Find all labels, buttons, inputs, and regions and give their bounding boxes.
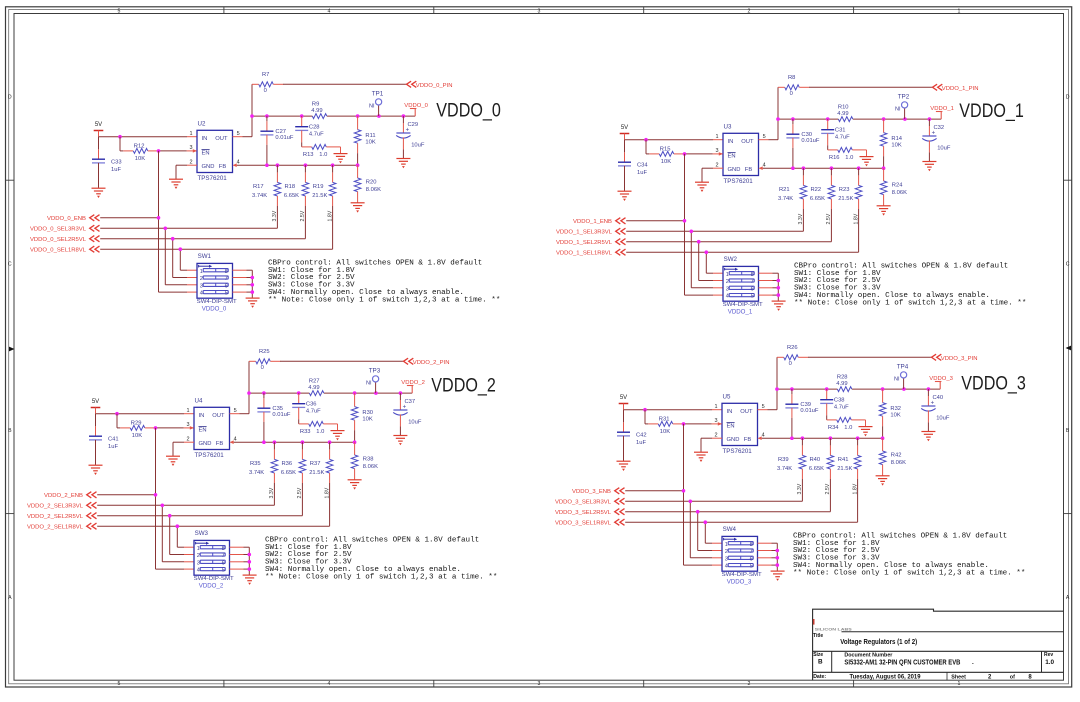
wire to VDDO_1_PIN flag	[809, 86, 933, 88]
svg-text:R41: R41	[838, 457, 849, 463]
resistor R34 1.0	[827, 417, 866, 431]
svg-text:10K: 10K	[365, 140, 375, 146]
svg-text:10K: 10K	[132, 433, 142, 439]
svg-text:GND: GND	[199, 441, 212, 447]
flag VDDO_3_ENB	[572, 488, 624, 496]
svg-text:8: 8	[225, 269, 228, 275]
svg-text:R36: R36	[282, 461, 293, 467]
svg-text:EN: EN	[728, 154, 736, 160]
flag VDDO_3_SEL3R3VL	[555, 498, 625, 506]
svg-text:R23: R23	[839, 187, 850, 193]
svg-text:EN: EN	[202, 151, 210, 157]
wire VDDO_3_SEL3R3VL	[625, 500, 802, 558]
resistor R19 21.5K	[312, 165, 336, 249]
svg-text:R20: R20	[366, 179, 377, 185]
svg-text:4: 4	[726, 294, 729, 300]
svg-text:5: 5	[118, 8, 121, 14]
svg-text:1: 1	[197, 546, 200, 552]
svg-text:C: C	[1066, 261, 1070, 267]
ground at U4 pin 2	[166, 456, 180, 466]
svg-text:Date:: Date:	[813, 674, 826, 680]
svg-text:1.0: 1.0	[844, 425, 852, 431]
svg-text:8.06K: 8.06K	[892, 190, 907, 196]
svg-text:10K: 10K	[891, 143, 901, 149]
svg-text:1: 1	[190, 131, 193, 137]
wire OUT pin 5 to rail	[233, 116, 253, 137]
svg-text:C41: C41	[108, 436, 119, 442]
ground at SW3	[243, 575, 257, 585]
title text	[813, 633, 917, 646]
svg-text:SW4-DIP-SMT: SW4-DIP-SMT	[194, 576, 235, 582]
test point TP3	[366, 368, 381, 393]
wire 5V input net to U5 pin 1	[624, 408, 723, 412]
svg-text:R38: R38	[363, 456, 374, 462]
resistor R36 6.65K	[281, 442, 306, 516]
power 5V (VDDO_2)	[91, 399, 101, 414]
switch SW1 SW4-DIP-SMT	[197, 253, 238, 313]
svg-text:VDDO_2: VDDO_2	[199, 582, 224, 589]
svg-text:4: 4	[200, 291, 203, 297]
svg-text:VDDO_3_ENB: VDDO_3_ENB	[572, 489, 611, 495]
svg-text:VDDO_0: VDDO_0	[202, 305, 227, 312]
svg-text:A: A	[8, 595, 12, 601]
svg-text:4: 4	[197, 568, 200, 574]
svg-text:5: 5	[118, 681, 121, 687]
wire VDDO_2_SEL3R3VL	[97, 504, 274, 562]
svg-text:TP1: TP1	[372, 91, 384, 98]
ground at U5 pin 2	[694, 452, 708, 462]
svg-text:4.99: 4.99	[836, 381, 847, 387]
svg-text:VDDO_3_PIN: VDDO_3_PIN	[941, 356, 978, 362]
resistor R18 6.65K	[284, 165, 309, 239]
svg-text:D: D	[8, 95, 12, 101]
svg-text:6: 6	[751, 286, 754, 292]
capacitor C42 1uF	[617, 410, 647, 461]
capacitor C41 1uF	[89, 414, 119, 465]
svg-text:R14: R14	[891, 136, 902, 142]
svg-text:IN: IN	[199, 413, 205, 419]
svg-text:Rev: Rev	[1044, 652, 1053, 658]
ground at SW4	[771, 571, 785, 581]
wire U2 GND pin 2	[176, 165, 197, 179]
wire VDDO_1_SEL2R5VL	[626, 240, 831, 281]
svg-text:Tuesday, August 06, 2019: Tuesday, August 06, 2019	[850, 673, 921, 680]
svg-text:3: 3	[538, 8, 541, 14]
test point TP1	[369, 91, 384, 116]
svg-text:1.0: 1.0	[319, 152, 327, 158]
svg-text:VDDO_0_PIN: VDDO_0_PIN	[416, 83, 453, 89]
flag VDDO_0_SEL2R5VL	[30, 236, 100, 244]
svg-text:3.3V: 3.3V	[269, 487, 275, 498]
ground at C37	[393, 436, 407, 446]
size / document number / rev row	[813, 652, 1054, 666]
svg-text:SW1: SW1	[198, 253, 212, 260]
wire to VDDO_0_PIN flag	[283, 83, 407, 85]
svg-text:6.65K: 6.65K	[810, 196, 825, 202]
svg-text:R18: R18	[285, 184, 296, 190]
svg-text:10K: 10K	[135, 156, 145, 162]
resistor R24 8.06K	[880, 168, 907, 205]
resistor R27 4.99	[308, 378, 324, 395]
resistor R21 3.74K	[778, 168, 807, 231]
capacitor C36 4.7uF	[292, 393, 321, 424]
svg-text:3: 3	[726, 286, 729, 292]
svg-text:TP3: TP3	[369, 368, 381, 375]
ground at U3 pin 2	[695, 182, 709, 192]
svg-text:GND: GND	[728, 167, 741, 173]
svg-text:1.8V: 1.8V	[853, 213, 859, 224]
svg-text:1.0: 1.0	[845, 155, 853, 161]
svg-text:3: 3	[190, 145, 193, 151]
svg-text:+: +	[403, 405, 407, 411]
power 5V (VDDO_0)	[94, 122, 104, 137]
svg-text:21.5K: 21.5K	[309, 470, 324, 476]
svg-text:R34: R34	[828, 425, 839, 431]
wire VDDO_3 output rail	[775, 387, 940, 391]
svg-text:3.74K: 3.74K	[249, 470, 264, 476]
svg-text:3: 3	[187, 422, 190, 428]
wire to VDDO_2_PIN flag	[280, 360, 404, 362]
ground at R42	[876, 476, 890, 486]
svg-text:4: 4	[234, 437, 237, 443]
svg-text:21.5K: 21.5K	[837, 466, 852, 472]
title block	[813, 609, 1064, 680]
svg-text:7: 7	[225, 276, 228, 282]
svg-text:4: 4	[328, 681, 331, 687]
svg-text:2: 2	[197, 553, 200, 559]
svg-text:Size: Size	[813, 652, 823, 658]
svg-text:R31: R31	[659, 416, 670, 422]
flag VDDO_2_SEL3R3VL	[27, 502, 97, 510]
svg-text:5: 5	[222, 568, 225, 574]
svg-text:VDDO_1_SEL1R8VL: VDDO_1_SEL1R8VL	[556, 251, 613, 257]
svg-text:1uF: 1uF	[636, 440, 646, 446]
resistor R40 6.65K	[809, 438, 834, 512]
capacitor C30 0.01uF	[786, 119, 820, 168]
svg-text:R26: R26	[787, 345, 798, 351]
wire VDDO_2_ENB	[97, 428, 194, 569]
svg-text:10K: 10K	[362, 417, 372, 423]
svg-text:5: 5	[750, 564, 753, 570]
net label VDDO_3	[929, 376, 953, 389]
svg-text:3.3V: 3.3V	[797, 483, 803, 494]
svg-text:R24: R24	[892, 182, 903, 188]
svg-text:+: +	[932, 131, 936, 137]
wire VDDO_0_SEL1R8VL	[100, 247, 332, 270]
svg-text:1.0: 1.0	[1045, 659, 1054, 666]
svg-text:4.99: 4.99	[308, 385, 319, 391]
svg-text:4.7uF: 4.7uF	[309, 131, 324, 137]
ground at R16	[860, 157, 874, 167]
svg-text:.: .	[972, 659, 974, 666]
wire FB net	[762, 436, 885, 440]
svg-text:8.06K: 8.06K	[363, 464, 378, 470]
svg-text:SW4-DIP-SMT: SW4-DIP-SMT	[723, 302, 764, 308]
wire VDDO_2_SEL2R5VL	[97, 514, 302, 555]
svg-text:C36: C36	[306, 402, 317, 408]
wire VDDO_2 output rail	[247, 391, 412, 395]
svg-text:3: 3	[725, 556, 728, 562]
svg-text:R40: R40	[810, 457, 821, 463]
svg-text:C31: C31	[835, 128, 846, 134]
svg-text:1.8V: 1.8V	[852, 483, 858, 494]
svg-text:4: 4	[237, 160, 240, 166]
svg-text:SW3: SW3	[195, 530, 209, 537]
resistor R35 3.74K	[249, 442, 278, 505]
svg-text:VDDO_0_SEL1R8VL: VDDO_0_SEL1R8VL	[30, 248, 87, 254]
svg-text:R13: R13	[303, 152, 314, 158]
ground at C32	[922, 162, 936, 172]
ground at SW1	[246, 298, 260, 308]
svg-text:R7: R7	[262, 72, 269, 78]
svg-text:2: 2	[716, 163, 719, 169]
wire 5V input net to U3 pin 1	[625, 138, 724, 142]
svg-text:R29: R29	[131, 420, 142, 426]
svg-text:8: 8	[751, 272, 754, 278]
wire OUT pin 5 to rail	[230, 393, 250, 414]
svg-text:10uF: 10uF	[936, 416, 950, 422]
svg-text:6: 6	[222, 560, 225, 566]
svg-text:3.74K: 3.74K	[778, 196, 793, 202]
svg-text:R12: R12	[134, 143, 145, 149]
capacitor C32 10uF polarized	[922, 119, 951, 161]
svg-text:VDDO_3: VDDO_3	[727, 578, 752, 585]
note CBPro control text	[265, 536, 497, 581]
resistor R7 0	[252, 72, 283, 116]
svg-text:3.74K: 3.74K	[252, 193, 267, 199]
flag VDDO_1_PIN	[933, 84, 979, 92]
svg-text:0: 0	[790, 91, 793, 97]
svg-text:NI: NI	[895, 107, 901, 113]
svg-text:8.06K: 8.06K	[366, 187, 381, 193]
resistor R28 4.99	[836, 374, 852, 391]
svg-text:1: 1	[200, 269, 203, 275]
capacitor C28 4.7uF	[295, 116, 324, 147]
svg-text:R35: R35	[250, 461, 261, 467]
regulator U5 TPS76201	[715, 394, 765, 455]
ground at C29	[396, 159, 410, 169]
svg-text:R15: R15	[660, 146, 671, 152]
resistor R10 4.99	[837, 104, 853, 121]
wire VDDO_3_ENB	[625, 424, 722, 565]
ground at R24	[877, 206, 891, 216]
svg-text:VDDO_1: VDDO_1	[728, 308, 753, 315]
svg-text:R33: R33	[300, 429, 311, 435]
svg-text:VDDO_2_SEL1R8VL: VDDO_2_SEL1R8VL	[27, 525, 84, 531]
resistor R37 21.5K	[309, 442, 333, 526]
svg-text:10K: 10K	[890, 413, 900, 419]
svg-text:FB: FB	[216, 441, 224, 447]
svg-text:GND: GND	[727, 437, 740, 443]
svg-text:TPS76201: TPS76201	[723, 448, 753, 455]
svg-text:0: 0	[264, 88, 267, 94]
svg-text:OUT: OUT	[741, 139, 754, 145]
logo silicon labs	[813, 619, 853, 632]
svg-text:C40: C40	[933, 395, 944, 401]
svg-text:3.74K: 3.74K	[777, 466, 792, 472]
svg-text:** Note: Close only 1 of switc: ** Note: Close only 1 of switch 1,2,3 at…	[268, 296, 500, 304]
resistor R39 3.74K	[777, 438, 806, 501]
svg-text:U2: U2	[198, 121, 206, 128]
svg-text:SW4: SW4	[723, 526, 737, 533]
resistor R9 4.99	[311, 101, 327, 118]
wire OUT pin 5 to rail	[759, 119, 779, 140]
svg-text:VDDO_1_ENB: VDDO_1_ENB	[573, 219, 612, 225]
resistor R13 1.0	[302, 144, 341, 158]
flag VDDO_3_PIN	[932, 354, 978, 362]
resistor R22 6.65K	[810, 168, 835, 242]
svg-text:0.01uF: 0.01uF	[800, 408, 819, 414]
resistor R38 8.06K	[351, 442, 378, 479]
svg-text:+: +	[406, 128, 410, 134]
svg-text:1uF: 1uF	[108, 444, 118, 450]
note CBPro control text	[793, 532, 1025, 577]
svg-text:3: 3	[197, 560, 200, 566]
svg-text:2.5V: 2.5V	[825, 483, 831, 494]
svg-text:C: C	[8, 261, 12, 267]
svg-text:IN: IN	[728, 139, 734, 145]
svg-text:VDDO_1: VDDO_1	[959, 101, 1024, 122]
svg-text:R9: R9	[312, 101, 319, 107]
svg-text:6: 6	[750, 556, 753, 562]
flag VDDO_2_PIN	[404, 358, 450, 366]
svg-text:C37: C37	[405, 399, 416, 405]
svg-text:Title: Title	[813, 633, 823, 639]
svg-text:B: B	[818, 659, 823, 666]
svg-text:3: 3	[538, 681, 541, 687]
svg-text:2: 2	[726, 279, 729, 285]
svg-text:R42: R42	[891, 452, 902, 458]
wire U3 GND pin 2	[702, 168, 723, 182]
svg-text:5: 5	[225, 291, 228, 297]
wire VDDO_1_SEL1R8VL	[626, 250, 858, 273]
resistor R16 1.0	[828, 147, 867, 161]
svg-text:FB: FB	[744, 437, 752, 443]
wire VDDO_1 output rail	[776, 117, 941, 121]
flag VDDO_0_SEL1R8VL	[30, 246, 100, 254]
svg-text:SILICON LABS: SILICON LABS	[815, 628, 853, 632]
svg-text:TPS76201: TPS76201	[724, 178, 754, 185]
svg-text:2: 2	[725, 549, 728, 555]
svg-text:2.5V: 2.5V	[826, 213, 832, 224]
svg-text:C29: C29	[408, 122, 419, 128]
svg-text:4: 4	[763, 163, 766, 169]
svg-text:R30: R30	[362, 410, 373, 416]
test point TP4	[894, 364, 909, 389]
svg-text:4: 4	[762, 433, 765, 439]
svg-text:3: 3	[715, 418, 718, 424]
wire FB net	[234, 440, 357, 444]
svg-text:10uF: 10uF	[408, 420, 422, 426]
svg-text:GND: GND	[202, 164, 215, 170]
resistor R11 10K	[354, 116, 376, 165]
svg-text:3: 3	[716, 148, 719, 154]
wire SW1 common to ground	[233, 270, 255, 298]
note CBPro control text	[268, 259, 500, 304]
svg-text:B: B	[8, 428, 12, 434]
resistor R17 3.74K	[252, 165, 281, 228]
svg-text:VDDO_0: VDDO_0	[436, 100, 501, 121]
svg-text:VDDO_0_ENB: VDDO_0_ENB	[47, 216, 86, 222]
wire VDDO_1_ENB	[626, 154, 723, 295]
wire 5V input net to U2 pin 1	[99, 135, 198, 139]
svg-text:VDDO_3: VDDO_3	[961, 373, 1026, 394]
capacitor C34 1uF	[618, 140, 648, 191]
regulator U4 TPS76201	[187, 398, 237, 459]
flag VDDO_0_SEL3R3VL	[30, 225, 100, 233]
svg-text:U3: U3	[724, 124, 732, 131]
wire VDDO_0 output rail	[250, 114, 415, 118]
regulator U2 TPS76201	[190, 121, 240, 182]
svg-text:Sheet: Sheet	[951, 674, 966, 680]
svg-text:10K: 10K	[661, 159, 671, 165]
resistor R33 1.0	[299, 421, 338, 435]
flag VDDO_0_PIN	[407, 81, 453, 89]
svg-text:5V: 5V	[95, 122, 102, 128]
wire VDDO_2_SEL1R8VL	[97, 524, 329, 547]
svg-text:VDDO_1_PIN: VDDO_1_PIN	[942, 86, 979, 92]
wire U5 GND pin 2	[701, 438, 722, 452]
svg-text:10K: 10K	[660, 429, 670, 435]
capacitor C37 10uF polarized	[393, 393, 422, 435]
svg-text:1.8V: 1.8V	[324, 487, 330, 498]
svg-text:VDDO_0_SEL3R3VL: VDDO_0_SEL3R3VL	[30, 227, 87, 233]
capacitor C39 0.01uF	[785, 389, 819, 438]
resistor R23 21.5K	[838, 168, 862, 252]
svg-text:5V: 5V	[620, 395, 627, 401]
svg-text:1.8V: 1.8V	[327, 210, 333, 221]
svg-text:SW2: SW2	[724, 256, 738, 263]
svg-text:R11: R11	[365, 133, 375, 139]
svg-text:2: 2	[715, 433, 718, 439]
svg-text:** Note: Close only 1 of switc: ** Note: Close only 1 of switch 1,2,3 at…	[794, 299, 1026, 307]
svg-text:NI: NI	[366, 381, 372, 387]
svg-text:VDDO_3_SEL2R5VL: VDDO_3_SEL2R5VL	[555, 510, 612, 516]
flag VDDO_1_SEL2R5VL	[556, 239, 626, 247]
svg-text:1: 1	[187, 408, 190, 414]
svg-text:VDDO_2_ENB: VDDO_2_ENB	[44, 493, 83, 499]
svg-text:7: 7	[222, 553, 225, 559]
svg-text:5: 5	[751, 294, 754, 300]
ground at R33	[331, 431, 345, 441]
flag VDDO_2_SEL2R5VL	[27, 513, 97, 521]
svg-text:6: 6	[225, 283, 228, 289]
svg-text:NI: NI	[369, 104, 375, 110]
svg-text:0: 0	[261, 365, 264, 371]
svg-text:21.5K: 21.5K	[838, 196, 853, 202]
svg-text:0: 0	[789, 361, 792, 367]
wire 5V input net to U4 pin 1	[96, 412, 195, 416]
svg-text:2.5V: 2.5V	[300, 210, 306, 221]
svg-text:10uF: 10uF	[411, 143, 425, 149]
ground at R34	[859, 427, 873, 437]
wire VDDO_0_SEL2R5VL	[100, 237, 305, 278]
svg-text:2: 2	[187, 437, 190, 443]
test point TP2	[895, 94, 910, 119]
svg-text:EN: EN	[199, 428, 207, 434]
svg-text:VDDO_1_SEL2R5VL: VDDO_1_SEL2R5VL	[556, 240, 613, 246]
svg-text:2.5V: 2.5V	[297, 487, 303, 498]
svg-text:TPS76201: TPS76201	[198, 175, 228, 182]
wire VDDO_3_SEL2R5VL	[625, 510, 830, 551]
svg-text:IN: IN	[202, 136, 208, 142]
svg-text:VDDO_1: VDDO_1	[930, 106, 954, 112]
svg-text:VDDO_2_SEL3R3VL: VDDO_2_SEL3R3VL	[27, 504, 84, 510]
ground at R20	[351, 203, 365, 213]
svg-text:Voltage Regulators (1 of 2): Voltage Regulators (1 of 2)	[840, 639, 917, 646]
resistor R12 10K	[120, 137, 197, 163]
svg-text:VDDO_1_SEL3R3VL: VDDO_1_SEL3R3VL	[556, 230, 613, 236]
